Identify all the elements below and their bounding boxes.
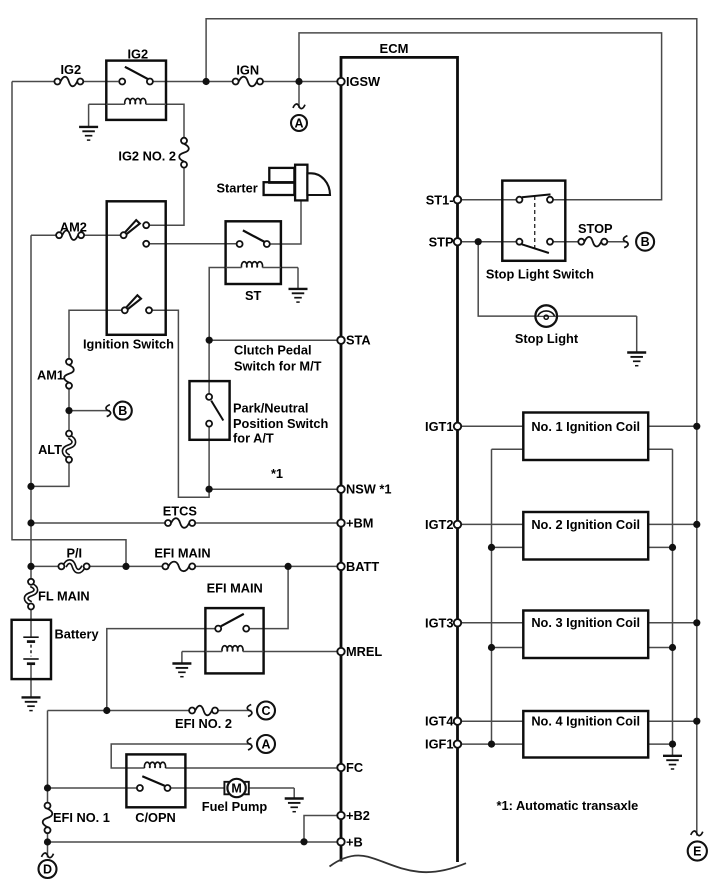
svg-text:ST: ST xyxy=(245,288,262,303)
svg-text:C/OPN: C/OPN xyxy=(135,810,176,825)
svg-text:EFI NO. 2: EFI NO. 2 xyxy=(175,716,232,731)
svg-text:EFI MAIN: EFI MAIN xyxy=(207,581,263,596)
svg-text:E: E xyxy=(693,844,701,858)
svg-text:ALT: ALT xyxy=(38,442,62,457)
svg-text:No. 2 Ignition Coil: No. 2 Ignition Coil xyxy=(531,517,640,532)
svg-text:+B: +B xyxy=(346,834,363,849)
svg-text:P/I: P/I xyxy=(66,546,82,561)
svg-text:FL MAIN: FL MAIN xyxy=(38,589,90,604)
svg-text:Starter: Starter xyxy=(217,181,258,196)
svg-text:Park/Neutral: Park/Neutral xyxy=(233,401,308,416)
svg-text:IGSW: IGSW xyxy=(346,74,381,89)
svg-text:B: B xyxy=(118,404,127,418)
svg-text:STA: STA xyxy=(346,333,371,348)
svg-text:IGT3: IGT3 xyxy=(425,615,453,630)
svg-text:Fuel Pump: Fuel Pump xyxy=(202,799,268,814)
svg-text:IGT2: IGT2 xyxy=(425,517,453,532)
svg-text:Switch for M/T: Switch for M/T xyxy=(234,359,322,374)
svg-text:BATT: BATT xyxy=(346,559,379,574)
svg-text:AM1: AM1 xyxy=(37,368,64,383)
svg-text:ECM: ECM xyxy=(380,41,409,56)
svg-text:AM2: AM2 xyxy=(60,220,87,235)
svg-text:Battery: Battery xyxy=(55,627,100,642)
svg-text:No. 4 Ignition Coil: No. 4 Ignition Coil xyxy=(531,713,640,728)
svg-text:IGT4: IGT4 xyxy=(425,714,454,729)
svg-text:ST1-: ST1- xyxy=(426,193,454,208)
svg-text:ETCS: ETCS xyxy=(163,504,198,519)
svg-text:IGT1: IGT1 xyxy=(425,419,453,434)
svg-text:+B2: +B2 xyxy=(346,808,370,823)
svg-text:A: A xyxy=(261,737,270,751)
svg-text:for A/T: for A/T xyxy=(233,431,274,446)
svg-text:MREL: MREL xyxy=(346,644,382,659)
svg-text:STOP: STOP xyxy=(578,221,613,236)
svg-text:M: M xyxy=(231,781,241,795)
svg-text:C: C xyxy=(261,704,270,718)
svg-text:No. 3 Ignition Coil: No. 3 Ignition Coil xyxy=(531,615,640,630)
svg-text:+BM: +BM xyxy=(346,516,373,531)
svg-text:IGN: IGN xyxy=(236,63,259,78)
svg-text:IGF1: IGF1 xyxy=(425,737,453,752)
svg-text:EFI MAIN: EFI MAIN xyxy=(154,546,210,561)
svg-text:IG2: IG2 xyxy=(60,62,81,77)
svg-text:B: B xyxy=(641,235,650,249)
svg-text:Stop Light: Stop Light xyxy=(515,331,579,346)
svg-text:IG2 NO. 2: IG2 NO. 2 xyxy=(118,149,176,164)
svg-text:Position Switch: Position Switch xyxy=(233,416,328,431)
svg-text:FC: FC xyxy=(346,760,363,775)
svg-text:*1: Automatic transaxle: *1: Automatic transaxle xyxy=(497,798,639,813)
svg-text:Stop Light Switch: Stop Light Switch xyxy=(486,267,594,282)
svg-text:STP: STP xyxy=(429,235,454,250)
svg-text:NSW *1: NSW *1 xyxy=(346,482,392,497)
svg-text:A: A xyxy=(294,116,303,130)
svg-text:IG2: IG2 xyxy=(127,47,148,62)
svg-text:Ignition Switch: Ignition Switch xyxy=(83,337,174,352)
svg-text:Clutch Pedal: Clutch Pedal xyxy=(234,343,312,358)
svg-text:D: D xyxy=(43,862,52,876)
svg-text:*1: *1 xyxy=(271,466,283,481)
svg-text:EFI NO. 1: EFI NO. 1 xyxy=(53,810,110,825)
svg-text:No. 1 Ignition Coil: No. 1 Ignition Coil xyxy=(531,419,640,434)
